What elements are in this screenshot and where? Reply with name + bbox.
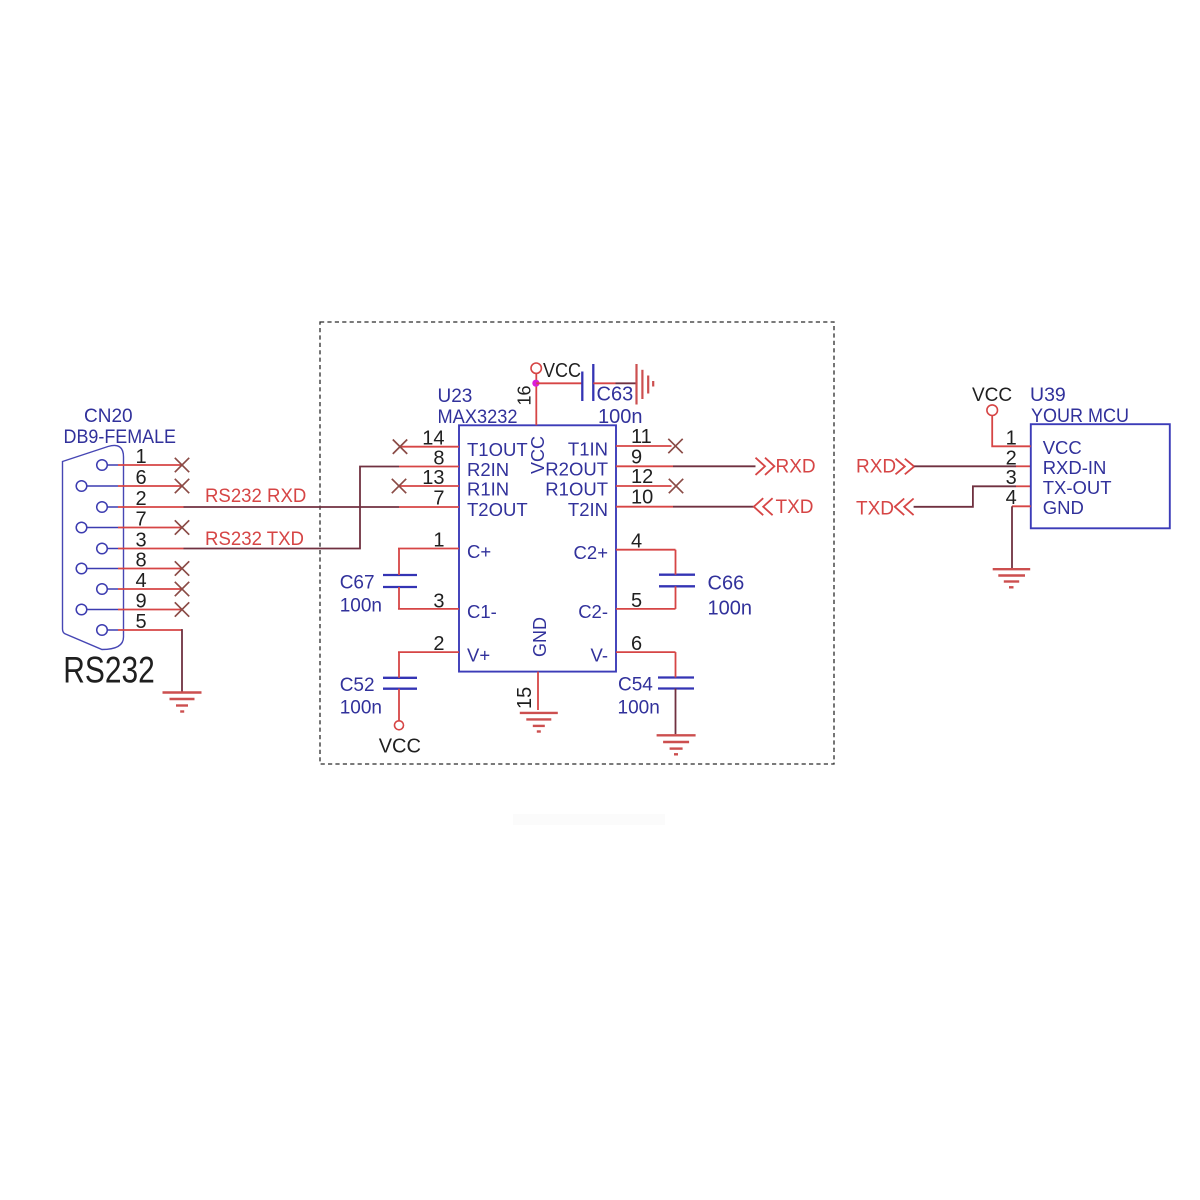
svg-text:9: 9 — [631, 446, 642, 468]
no-connect X U23 pin 12 — [669, 479, 683, 493]
U23 pin 2 V+ stub — [398, 651, 459, 653]
svg-text:VCC: VCC — [1043, 437, 1082, 458]
capacitor C54 plates — [658, 678, 694, 689]
svg-text:TX-OUT: TX-OUT — [1043, 477, 1112, 498]
dashed module boundary box — [320, 322, 834, 764]
wire RXD to MCU pin 2 — [914, 465, 1031, 467]
svg-text:CN20: CN20 — [84, 406, 133, 427]
svg-text:1: 1 — [433, 530, 444, 552]
svg-text:1: 1 — [135, 446, 146, 468]
svg-text:11: 11 — [631, 426, 652, 448]
U23 pin 9 R2OUT stub — [616, 465, 673, 467]
pin 1 circle — [97, 460, 108, 471]
pin 7 circle — [76, 522, 87, 533]
svg-text:1: 1 — [1006, 428, 1017, 450]
svg-text:100n: 100n — [340, 698, 382, 719]
wire C+ to C67 — [398, 549, 400, 576]
pin 6 lead wire — [87, 485, 182, 487]
svg-text:C+: C+ — [467, 541, 491, 562]
no-connect X U23 pin 13 — [392, 479, 406, 493]
pin 8 circle — [76, 563, 87, 574]
svg-text:VCC: VCC — [543, 360, 581, 382]
svg-text:4: 4 — [135, 570, 146, 592]
pin 9 lead wire — [87, 609, 182, 611]
pin 1 lead wire — [107, 464, 182, 466]
svg-text:C66: C66 — [708, 573, 745, 595]
wire V+ to C52 — [398, 652, 400, 678]
U23 pin 1 C+ stub — [398, 548, 459, 550]
U23 pin 14 T1OUT stub — [400, 446, 459, 448]
svg-text:RXD-IN: RXD-IN — [1043, 457, 1107, 478]
pin 3 circle — [97, 543, 108, 554]
svg-text:V-: V- — [591, 644, 608, 665]
svg-text:DB9-FEMALE: DB9-FEMALE — [64, 427, 177, 448]
svg-text:U23: U23 — [438, 386, 473, 407]
wire R2OUT to RXD arrow — [673, 465, 756, 467]
svg-text:C63: C63 — [597, 384, 634, 406]
svg-text:7: 7 — [135, 509, 146, 531]
svg-text:6: 6 — [631, 633, 642, 655]
U23 pin 4 C2+ stub — [616, 549, 676, 551]
svg-text:R2IN: R2IN — [467, 459, 509, 480]
U23 pin 8 R2IN stub — [399, 466, 459, 468]
pin 9 circle — [76, 604, 87, 615]
ground at C54 — [657, 735, 696, 754]
pin 4 circle — [97, 584, 108, 595]
svg-text:3: 3 — [1006, 467, 1017, 489]
wire pin 5 to ground — [181, 629, 183, 692]
U23 pin 11 T1IN stub — [616, 445, 672, 447]
svg-text:RS232 RXD: RS232 RXD — [205, 486, 306, 507]
no-connect X U23 pin 11 — [668, 439, 682, 453]
svg-text:GND: GND — [1043, 497, 1084, 518]
ground (rotated) at C63 — [637, 364, 654, 405]
svg-text:RXD: RXD — [776, 457, 816, 478]
svg-text:3: 3 — [135, 530, 146, 552]
pin 7 lead wire — [87, 527, 182, 529]
wire C54 to ground — [675, 689, 677, 735]
svg-text:C67: C67 — [340, 573, 375, 594]
pin 2 lead wire — [107, 506, 183, 508]
pin 3 lead wire — [107, 548, 183, 550]
U23 pin 10 T2IN stub — [616, 506, 673, 508]
wire MCU GND to ground — [1011, 506, 1013, 568]
wire RS232 RXD to U23 pin 7 — [184, 506, 400, 508]
svg-text:C52: C52 — [340, 675, 375, 696]
wire C66 to C2- — [675, 586, 677, 609]
svg-text:5: 5 — [631, 590, 642, 612]
svg-text:RS232: RS232 — [63, 649, 155, 691]
power VCC terminal circle (top) — [531, 363, 541, 373]
svg-text:TXD: TXD — [856, 499, 894, 520]
svg-text:YOUR MCU: YOUR MCU — [1031, 405, 1129, 427]
svg-text:12: 12 — [631, 466, 653, 488]
svg-text:VCC: VCC — [972, 385, 1012, 406]
no-connect X pin 7 — [175, 520, 189, 534]
wire VCC junction to C63 — [536, 382, 582, 384]
svg-text:C54: C54 — [618, 675, 653, 696]
pin 5 lead wire — [107, 629, 182, 631]
svg-text:100n: 100n — [708, 598, 753, 620]
svg-text:100n: 100n — [618, 698, 660, 719]
U23 pin 7 T2OUT stub — [399, 506, 459, 508]
wire C2+ to C66 — [675, 550, 677, 575]
wire RS232 TXD to U23 pin 8 — [184, 467, 400, 549]
svg-text:RS232 TXD: RS232 TXD — [205, 529, 304, 550]
U23 pin 12 R1OUT stub — [616, 485, 672, 487]
svg-text:2: 2 — [135, 488, 146, 510]
svg-text:4: 4 — [631, 531, 642, 553]
no-connect X pin 9 — [175, 602, 189, 616]
svg-text:9: 9 — [135, 591, 146, 613]
no-connect X pin 4 — [175, 582, 189, 596]
svg-text:T1IN: T1IN — [568, 438, 608, 459]
svg-text:R2OUT: R2OUT — [545, 459, 608, 480]
capacitor C63 plates — [582, 364, 593, 401]
svg-text:TXD: TXD — [776, 497, 814, 518]
pin 2 circle — [97, 502, 108, 513]
wire TXD to MCU pin 3 — [914, 486, 1031, 507]
pin 5 circle — [97, 625, 108, 636]
svg-text:MAX3232: MAX3232 — [438, 407, 518, 428]
U23 pin 6 V- stub — [616, 651, 676, 653]
svg-text:GND: GND — [530, 617, 550, 657]
svg-text:RXD: RXD — [856, 457, 896, 478]
svg-text:T2IN: T2IN — [568, 499, 608, 520]
wire C52 to VCC terminal — [398, 689, 400, 721]
svg-text:R1IN: R1IN — [467, 478, 509, 499]
pin 8 lead wire — [87, 568, 182, 570]
U23 pin 3 C1- stub — [398, 608, 459, 610]
svg-text:C2-: C2- — [578, 601, 608, 622]
MCU pin 4 stub — [1012, 505, 1031, 507]
svg-text:VCC: VCC — [528, 436, 548, 474]
svg-text:10: 10 — [631, 487, 653, 509]
wire C63 to ground — [593, 382, 635, 384]
svg-text:2: 2 — [1006, 447, 1017, 469]
arrow chevrons RXD (right section) — [896, 459, 915, 475]
arrow chevrons RXD — [756, 458, 775, 475]
ground at MCU — [993, 569, 1030, 587]
svg-text:C1-: C1- — [467, 601, 497, 622]
svg-text:8: 8 — [135, 550, 146, 572]
arrow chevrons TXD (right section) — [895, 499, 914, 516]
svg-text:16: 16 — [515, 385, 535, 405]
svg-text:5: 5 — [135, 611, 146, 633]
no-connect X U23 pin 14 — [393, 440, 407, 454]
svg-text:6: 6 — [135, 467, 146, 489]
svg-text:100n: 100n — [598, 406, 643, 428]
no-connect X pin 8 — [175, 561, 189, 575]
svg-text:14: 14 — [422, 428, 444, 450]
capacitor C52 plates — [383, 678, 417, 689]
svg-text:15: 15 — [514, 687, 536, 709]
power VCC terminal circle (MCU) — [987, 405, 998, 416]
pin 6 circle — [76, 481, 87, 492]
wire T2IN to TXD arrow — [673, 506, 754, 508]
wire C67 to C1- — [398, 587, 400, 609]
svg-text:T1OUT: T1OUT — [467, 439, 528, 460]
svg-text:U39: U39 — [1030, 384, 1066, 406]
wire VCC terminal to MCU pin 1 — [992, 416, 1031, 447]
connector CN20 DB9-FEMALE body — [63, 445, 124, 649]
svg-text:2: 2 — [433, 633, 444, 655]
arrow chevrons TXD — [754, 498, 773, 515]
svg-text:7: 7 — [433, 488, 444, 510]
U23 pin 13 R1IN stub — [399, 485, 459, 487]
junction dot node VCC — [532, 380, 539, 387]
svg-text:100n: 100n — [340, 595, 382, 616]
faint artifact band — [513, 814, 665, 825]
ground RS232 shield — [163, 693, 202, 712]
svg-text:V+: V+ — [467, 644, 490, 665]
svg-text:3: 3 — [433, 590, 444, 612]
op-amp/transceiver U23 MAX3232 body — [459, 425, 616, 671]
pin 4 lead wire — [107, 588, 182, 590]
svg-text:VCC: VCC — [379, 736, 421, 758]
IC U39 YOUR MCU body — [1031, 424, 1170, 528]
no-connect X pin 1 — [175, 458, 189, 472]
power VCC terminal circle (C52) — [395, 721, 404, 730]
svg-text:C2+: C2+ — [574, 542, 608, 563]
ground U23 pin 15 — [520, 713, 558, 732]
svg-text:T2OUT: T2OUT — [467, 499, 528, 520]
U23 pin 15 GND wire — [537, 672, 539, 710]
U23 pin 5 C2- stub — [616, 608, 676, 610]
wire V- to C54 — [675, 652, 677, 677]
svg-text:13: 13 — [422, 467, 444, 489]
no-connect X pin 6 — [175, 479, 189, 493]
capacitor C67 plates — [383, 575, 417, 587]
U23 pin 16 VCC wire — [535, 374, 537, 426]
capacitor C66 plates — [659, 575, 695, 587]
svg-text:R1OUT: R1OUT — [545, 478, 608, 499]
